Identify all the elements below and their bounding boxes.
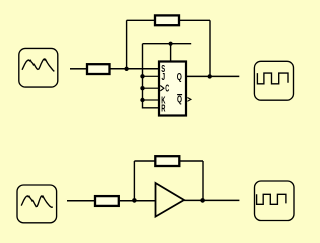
square wave inside probe icon [257,194,286,204]
wire from source to R1 [70,68,86,70]
Q-bar pin triangle marker [187,98,191,102]
C junction dot [140,86,144,90]
feedback top horizontal wire [127,19,210,21]
feedback left vertical wire (bottom circuit) [133,161,135,200]
JK flip-flop U1 body [159,62,186,116]
resistor R1 (input resistor) [87,64,110,74]
feedback left vertical wire [126,20,128,69]
resistor R3 (input resistor, bottom) [95,196,119,206]
oscilloscope icon (square wave probe, bottom right) [255,181,295,221]
signal source icon (sine generator, bottom) [17,185,57,223]
C pin stub [143,87,159,89]
amplifier U2 (buffer triangle) [156,183,185,217]
feedback right vertical wire [209,20,211,76]
feedback top horizontal wire (bottom circuit) [134,160,203,162]
node junction dot after R1 [124,67,128,71]
svg-text:J: J [162,72,166,83]
clock input triangle on C pin [160,86,164,91]
J junction dot [140,74,144,78]
Q output wire [187,75,239,77]
wire from R1 to S pin [111,68,159,70]
K pin stub [143,99,159,101]
second feedback wire (to clock bus) [143,43,192,45]
wire from source to R3 [67,200,94,202]
resistor R4 (feedback resistor, bottom) [155,156,179,166]
amplifier output wire [184,199,239,201]
resistor R2 (feedback resistor, top) [155,15,179,25]
junction dot at amplifier output [200,198,205,203]
wire from R3 to amplifier [120,200,156,202]
stub into flip-flop top [170,44,172,61]
J pin stub [143,75,159,77]
signal source icon (sine generator) [19,48,58,87]
sine-like waveform inside source icon [21,196,53,207]
svg-text:Q: Q [177,72,182,83]
overbar of Q-bar [177,94,182,96]
feedback right vertical wire (bottom circuit) [202,161,204,200]
junction dot at amplifier input [132,198,137,203]
pin bus vertical wire (J C K R) [143,44,159,108]
K junction dot [140,98,144,102]
square wave inside probe icon [257,73,288,84]
junction dot above flip-flop [169,42,173,46]
junction dot on Q output wire [208,74,212,78]
oscilloscope icon (square wave probe, top right) [254,61,293,100]
sine-like waveform inside source icon [22,59,54,71]
svg-text:Q: Q [177,95,182,106]
svg-text:C: C [165,84,169,95]
svg-text:R: R [161,103,165,114]
